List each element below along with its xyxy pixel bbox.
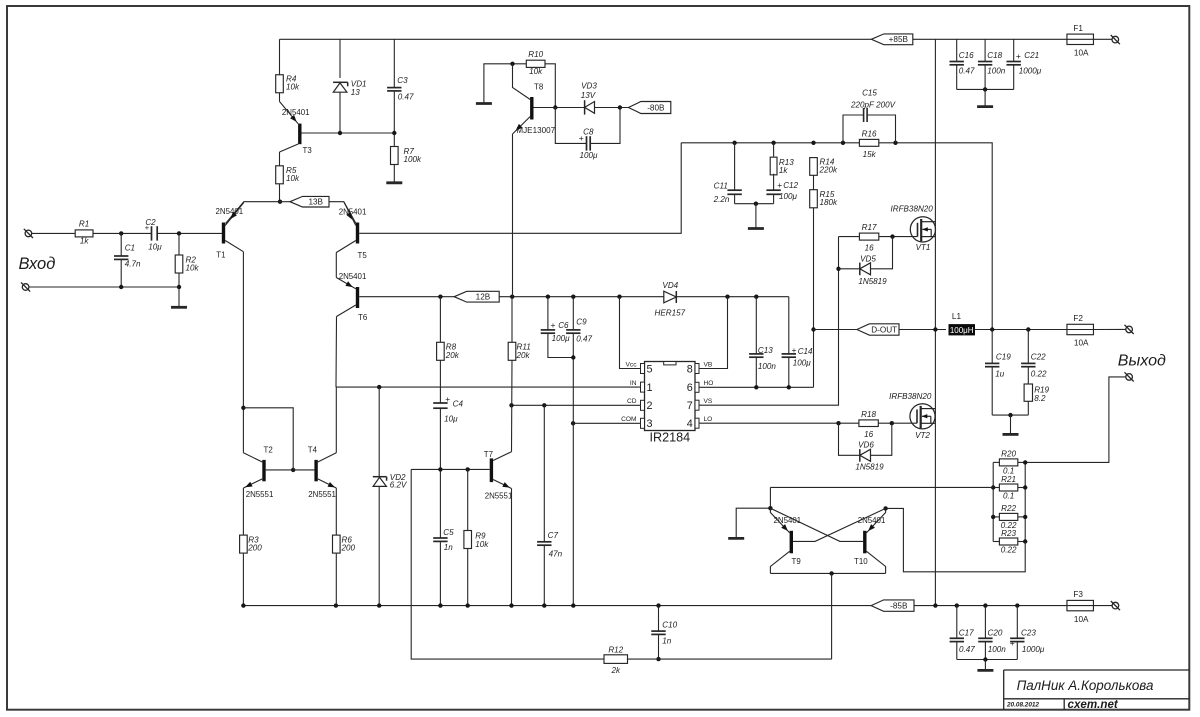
node -85V / R6 bottom — [334, 603, 338, 607]
resistor R17 — [859, 223, 878, 252]
node C6 top — [546, 295, 550, 299]
svg-text:0.47: 0.47 — [576, 335, 592, 344]
svg-text:2N5551: 2N5551 — [246, 490, 274, 499]
wire R6 bottom lead — [335, 554, 337, 606]
svg-text:C12: C12 — [783, 181, 798, 190]
wire R22 leads — [993, 516, 1025, 518]
capacitor C15 — [843, 89, 897, 143]
svg-text:VT1: VT1 — [916, 243, 931, 252]
svg-text:Vcc: Vcc — [626, 361, 638, 368]
wire Vcc riser — [620, 297, 641, 369]
svg-text:T10: T10 — [854, 557, 868, 566]
wire C10 top lead — [658, 606, 660, 631]
svg-text:R12: R12 — [608, 646, 623, 655]
transistor T4 — [308, 446, 337, 499]
svg-text:C13: C13 — [758, 346, 773, 355]
wire +85V rail left section — [280, 38, 872, 40]
node R20 right — [1023, 460, 1027, 464]
pin 3 COM — [621, 416, 652, 430]
capacitor C18 — [978, 51, 1006, 75]
wire T3 base line — [301, 132, 394, 134]
node T8 collector / R10 left — [510, 62, 514, 66]
node R13 rail — [771, 141, 775, 145]
resistor R18 — [859, 410, 878, 439]
svg-text:10A: 10A — [1074, 615, 1089, 624]
wire VD5 left lead — [839, 268, 860, 270]
wire C20 bottom lead — [984, 642, 986, 660]
svg-text:Выход: Выход — [1118, 353, 1166, 370]
svg-text:0.22: 0.22 — [1001, 545, 1017, 554]
inductor L1 — [949, 312, 976, 335]
wire R2 top lead — [178, 233, 180, 255]
node VB riser top — [725, 295, 729, 299]
net flag -85B — [871, 600, 914, 611]
svg-text:C1: C1 — [125, 243, 135, 252]
node CD / T7 collector — [509, 403, 513, 407]
wire C17-C23 ground bus — [957, 659, 1018, 661]
zener diode VD1 — [333, 80, 366, 98]
capacitor C19 — [985, 352, 1011, 378]
terminal input top — [24, 229, 33, 238]
terminal +85V input — [1111, 35, 1120, 44]
fuse F3 — [1067, 590, 1094, 624]
capacitor C11 — [713, 182, 742, 204]
capacitor C6 — [541, 320, 570, 343]
svg-text:20.08.2012: 20.08.2012 — [1006, 702, 1039, 709]
wire C19 top lead — [991, 330, 993, 364]
node R2 top — [177, 231, 181, 235]
svg-text:C17: C17 — [959, 628, 974, 637]
node R21 left — [991, 485, 995, 489]
wire C5 top lead — [439, 469, 441, 537]
svg-text:10μ: 10μ — [148, 242, 162, 251]
wire T7 base feedback riser — [411, 469, 604, 659]
resistor R23 — [999, 529, 1017, 555]
svg-text:COM: COM — [621, 416, 636, 423]
svg-text:+: + — [792, 345, 797, 355]
svg-text:220pF 200V: 220pF 200V — [850, 101, 897, 110]
node R18-VD6 right — [890, 421, 894, 425]
wire T2 base link — [266, 469, 294, 471]
capacitor C1 — [114, 243, 141, 268]
svg-text:VB: VB — [704, 361, 713, 368]
wire C9 top lead — [572, 297, 574, 330]
fuse F1 — [1067, 24, 1094, 58]
node COM / C9 line — [571, 421, 575, 425]
wire C19 bottom lead — [991, 367, 993, 415]
svg-text:C19: C19 — [996, 352, 1011, 361]
node -85V / VD2 bottom — [377, 603, 381, 607]
svg-text:C9: C9 — [576, 318, 587, 327]
capacitor C3 — [387, 76, 414, 102]
svg-text:R22: R22 — [1001, 504, 1016, 513]
resistor R3 — [240, 535, 263, 553]
resistor R22 — [999, 504, 1017, 530]
svg-text:L1: L1 — [952, 312, 962, 321]
node -85V / R9 bottom — [466, 603, 470, 607]
wire C7 bottom lead — [543, 545, 545, 605]
wire T3 collector to R5 — [279, 152, 281, 166]
node zobel ground bus — [1008, 413, 1012, 417]
wire C16-C21 ground bus — [957, 88, 1014, 90]
wire latch left riser — [769, 487, 771, 508]
node 13V — [278, 200, 282, 204]
wire IN line — [336, 386, 641, 388]
ground at latch — [728, 537, 744, 540]
wire D-OUT rail left — [814, 329, 857, 331]
node D-OUT / divider — [811, 327, 815, 331]
wire L1 to F2 — [975, 329, 1067, 331]
wire 13V node to flag — [280, 201, 290, 203]
wire VB riser — [699, 297, 728, 369]
svg-text:10μ: 10μ — [444, 415, 458, 424]
terminal output bottom — [1125, 372, 1134, 381]
svg-text:2N5401: 2N5401 — [282, 108, 310, 117]
svg-text:+85B: +85B — [889, 35, 909, 44]
wire C1 top lead — [120, 233, 122, 255]
wire T4 collector up — [335, 387, 337, 453]
svg-text:C14: C14 — [798, 347, 813, 356]
node R8 top — [438, 295, 442, 299]
wire R21 leads — [993, 487, 1025, 489]
svg-text:C16: C16 — [959, 51, 974, 60]
svg-text:2: 2 — [647, 400, 653, 412]
wire T7 base line — [411, 468, 489, 470]
svg-text:10k: 10k — [286, 174, 300, 183]
wire R16 to D-OUT drop — [879, 143, 992, 330]
svg-text:0.47: 0.47 — [398, 93, 414, 102]
wire R4 to T3 emitter — [279, 93, 281, 102]
wire R13 top lead — [773, 143, 775, 157]
svg-text:T6: T6 — [358, 313, 368, 322]
svg-text:R17: R17 — [862, 223, 877, 232]
svg-text:C7: C7 — [548, 531, 559, 540]
svg-text:8: 8 — [687, 363, 693, 375]
resistor R19 — [1024, 384, 1049, 403]
wire C17 top lead — [956, 606, 958, 638]
resistor R8 — [437, 342, 460, 360]
svg-text:100n: 100n — [988, 645, 1007, 654]
net flag +85B — [871, 34, 913, 45]
node C14 bottom — [787, 385, 791, 389]
node -85V / R3 bottom — [241, 603, 245, 607]
MOSFET VT1 — [891, 205, 936, 253]
wire C5 bottom lead — [439, 542, 441, 606]
wire C6 bottom to C9 line — [548, 333, 573, 357]
resistor R9 — [464, 531, 489, 549]
svg-text:+: + — [1010, 638, 1015, 648]
wire ground stem C11-C12 — [755, 204, 757, 228]
svg-text:+: + — [145, 223, 150, 232]
svg-text:VD5: VD5 — [860, 254, 876, 263]
capacitor C17 — [950, 628, 976, 654]
wire T6 collector down to IN node — [335, 317, 338, 388]
wire C14 top lead — [788, 297, 790, 354]
svg-text:VS: VS — [704, 398, 713, 405]
node T2-T4 bases — [291, 468, 295, 472]
node -85V / VT2 source — [933, 603, 937, 607]
wire sense left rail — [992, 462, 994, 541]
svg-text:2k: 2k — [610, 666, 621, 675]
capacitor C9 — [566, 318, 592, 344]
svg-text:10A: 10A — [1074, 339, 1089, 348]
wire R9 bottom lead — [467, 549, 469, 606]
terminal output top — [1125, 325, 1134, 334]
wire C1 bottom lead — [120, 260, 122, 287]
schottky diode VD5 — [858, 254, 887, 286]
wire C3 top lead — [393, 39, 395, 87]
transistor T6 — [336, 272, 368, 322]
wire main drain-source vertical — [934, 39, 936, 605]
svg-text:C4: C4 — [453, 400, 464, 409]
capacitor C10 — [651, 620, 677, 645]
wire C16 top lead — [956, 39, 958, 61]
pin 2 CD — [627, 398, 653, 412]
svg-text:1000μ: 1000μ — [1022, 645, 1045, 654]
resistor R1 — [75, 219, 93, 245]
wire R8 top lead — [439, 297, 441, 343]
svg-text:1n: 1n — [662, 637, 672, 646]
node VD5 left — [836, 267, 840, 271]
node -85V / C23 top — [1015, 603, 1019, 607]
resistor R13 — [770, 157, 794, 175]
node C13 bottom — [754, 385, 758, 389]
svg-text:-80B: -80B — [647, 103, 665, 112]
svg-text:F3: F3 — [1073, 590, 1083, 599]
transistor T8 — [513, 64, 556, 135]
transistor T5 — [336, 202, 367, 260]
resistor R5 — [276, 166, 300, 184]
svg-text:15k: 15k — [863, 150, 877, 159]
svg-text:C23: C23 — [1021, 628, 1036, 637]
svg-text:13B: 13B — [308, 198, 323, 207]
capacitor C13 — [749, 346, 776, 371]
capacitor C4 — [433, 394, 463, 424]
wire C11 feedback rail — [681, 142, 859, 144]
wire T1 collector down — [242, 252, 244, 453]
node LO / VD6 left — [836, 421, 840, 425]
pin 1 IN — [630, 380, 653, 394]
node R17-VD5 right — [890, 234, 894, 238]
svg-text:C20: C20 — [988, 628, 1003, 637]
svg-text:10k: 10k — [286, 83, 300, 92]
svg-text:C15: C15 — [862, 89, 877, 98]
svg-text:T2: T2 — [264, 446, 273, 455]
svg-text:F1: F1 — [1073, 24, 1083, 33]
node T8 emitter / R11 top — [510, 295, 514, 299]
svg-text:IN: IN — [630, 380, 637, 387]
pin 7 VS — [687, 398, 713, 412]
svg-text:6: 6 — [687, 382, 693, 394]
wire C11 bottom lead — [734, 194, 736, 204]
wire 13V node to T1 emitter — [226, 202, 280, 224]
wire T8 base to VD3 — [555, 107, 584, 109]
node VD1-T3 base junction — [338, 131, 342, 135]
wire R19 bottom lead — [1027, 401, 1029, 415]
wire C12 bottom lead — [773, 194, 775, 204]
ground under zobel — [1003, 433, 1019, 436]
resistor R11 — [508, 342, 531, 360]
svg-text:T1: T1 — [216, 251, 225, 260]
wire T8 emitter down to 12V rail — [512, 134, 514, 297]
wire C18 bottom lead — [984, 65, 986, 89]
capacitor C12 — [766, 180, 798, 201]
resistor R21 — [999, 475, 1017, 501]
wire VD2 top lead — [378, 387, 380, 477]
svg-text:100n: 100n — [758, 362, 777, 371]
capacitor C22 — [1021, 352, 1047, 378]
wire C14 bottom lead — [788, 357, 790, 387]
pin 6 HO — [687, 380, 714, 394]
svg-text:13V: 13V — [581, 91, 597, 100]
node C10 bottom — [656, 657, 660, 661]
svg-text:0.47: 0.47 — [959, 66, 975, 75]
zener diode VD3 — [581, 82, 598, 115]
wire VD6 left leg — [839, 423, 860, 455]
svg-text:12B: 12B — [476, 293, 491, 302]
node -85V / C9 bottom — [571, 603, 575, 607]
svg-text:T4: T4 — [308, 446, 318, 455]
svg-text:C21: C21 — [1024, 51, 1039, 60]
svg-text:1k: 1k — [80, 236, 90, 245]
transistor T9 — [770, 508, 801, 573]
node -85V / C7 bottom — [542, 603, 546, 607]
wire C20 top lead — [984, 606, 986, 638]
node C11 rail — [732, 141, 736, 145]
transistor T1 — [216, 203, 244, 260]
wire LO line — [699, 422, 859, 424]
svg-text:100k: 100k — [404, 155, 423, 164]
wire COM line — [573, 422, 640, 424]
svg-text:T7: T7 — [484, 450, 493, 459]
wire C8 left leg — [555, 108, 586, 144]
svg-text:HO: HO — [704, 380, 714, 387]
resistor R16 — [859, 129, 878, 159]
node C4-C5 base — [438, 467, 442, 471]
svg-text:4: 4 — [687, 418, 693, 430]
wire 13V flag to T5 emitter — [329, 202, 356, 224]
wire T4 emitter to R6 — [335, 488, 337, 535]
node C1 bottom — [119, 285, 123, 289]
svg-text:1k: 1k — [779, 166, 789, 175]
title block — [1004, 670, 1190, 711]
wire HO line to D-OUT — [699, 386, 814, 388]
node bottom ground bus — [983, 657, 987, 661]
svg-text:2N5551: 2N5551 — [308, 490, 336, 499]
net flag D-OUT — [857, 324, 899, 335]
node C1 top — [119, 231, 123, 235]
wire -85V rail right — [914, 605, 1112, 607]
node T8 base / C8 left — [553, 105, 557, 109]
node R2 bottom input line — [177, 285, 181, 289]
node Vcc riser top — [617, 295, 621, 299]
node R23 right — [1023, 539, 1027, 543]
wire VD2 bottom lead — [378, 486, 380, 605]
wire C13 top lead — [755, 297, 757, 354]
wire R4 top lead — [279, 39, 281, 75]
svg-text:F2: F2 — [1073, 314, 1083, 323]
text Vyhod — [1118, 353, 1166, 370]
svg-text:T9: T9 — [792, 557, 802, 566]
capacitor C16 — [950, 51, 976, 75]
wire R8 to C4 — [439, 360, 441, 403]
zener diode VD2 — [373, 473, 408, 490]
wire sense bottom return — [886, 508, 1026, 571]
node -85V / C17 top — [955, 603, 959, 607]
svg-text:20k: 20k — [516, 351, 531, 360]
svg-text:8.2: 8.2 — [1034, 394, 1046, 403]
wire R10 right to T8 base — [545, 64, 555, 108]
diode VD4 — [655, 281, 686, 318]
wire VS line to gate network — [699, 237, 839, 406]
svg-text:ПалНик А.Королькова: ПалНик А.Королькова — [1017, 678, 1154, 693]
wire T5 collector to T6 emitter — [335, 253, 337, 278]
wire C21 top lead — [1013, 39, 1015, 61]
svg-text:100μ: 100μ — [580, 151, 599, 160]
node C13 top — [754, 295, 758, 299]
ground under R7 — [386, 181, 402, 184]
terminal -85V — [1111, 601, 1120, 610]
node R22 right — [1023, 515, 1027, 519]
svg-text:1u: 1u — [995, 370, 1005, 379]
ground under R2 — [171, 306, 187, 309]
svg-text:16: 16 — [865, 244, 875, 253]
wire T5 base line — [359, 143, 681, 234]
ground top right — [977, 105, 993, 108]
wire R23 leads — [993, 541, 1025, 543]
wire input to R1 — [32, 232, 75, 234]
svg-text:C8: C8 — [583, 127, 594, 136]
svg-text:100μH: 100μH — [950, 326, 974, 335]
wire R11 top lead — [511, 297, 513, 343]
svg-text:Вход: Вход — [19, 255, 56, 273]
capacitor C21 — [1007, 51, 1042, 75]
svg-text:0.47: 0.47 — [959, 645, 975, 654]
svg-text:2N5551: 2N5551 — [485, 491, 513, 500]
wire T10 base cross-coupling — [770, 508, 863, 541]
node ground bus C11-C12 — [754, 202, 758, 206]
transistor T3 — [280, 102, 313, 156]
wire R7 bottom lead — [393, 165, 395, 183]
node -85V / C5 bottom — [438, 603, 442, 607]
resistor R12 — [604, 646, 628, 676]
node C15 left — [841, 141, 845, 145]
ground under C11-C12 — [748, 227, 764, 230]
wire C13 bottom lead — [755, 357, 757, 387]
resistor R20 — [999, 450, 1017, 476]
svg-text:VD6: VD6 — [858, 441, 874, 450]
wire sense right rail — [1024, 462, 1026, 541]
capacitor C8 — [579, 127, 598, 160]
wire R2 bottom lead — [178, 273, 180, 307]
svg-text:IR2184: IR2184 — [649, 430, 690, 444]
wire bottom ground stem — [984, 660, 986, 670]
wire R9 top lead — [467, 469, 469, 530]
node CD / C7 — [542, 403, 546, 407]
node R21 right — [1023, 485, 1027, 489]
node R22 left — [991, 515, 995, 519]
IC U1 IR2184 body — [645, 362, 696, 445]
wire C11 top lead — [734, 143, 736, 190]
wire C16 bottom lead — [956, 65, 958, 89]
wire C17 bottom lead — [956, 642, 958, 660]
wire R15 down to VS line — [813, 208, 815, 387]
svg-text:VD4: VD4 — [662, 281, 678, 290]
wire C9-COM line down — [572, 333, 574, 605]
resistor R14 — [810, 158, 838, 176]
svg-text:C3: C3 — [397, 76, 408, 85]
svg-text:7: 7 — [687, 400, 693, 412]
